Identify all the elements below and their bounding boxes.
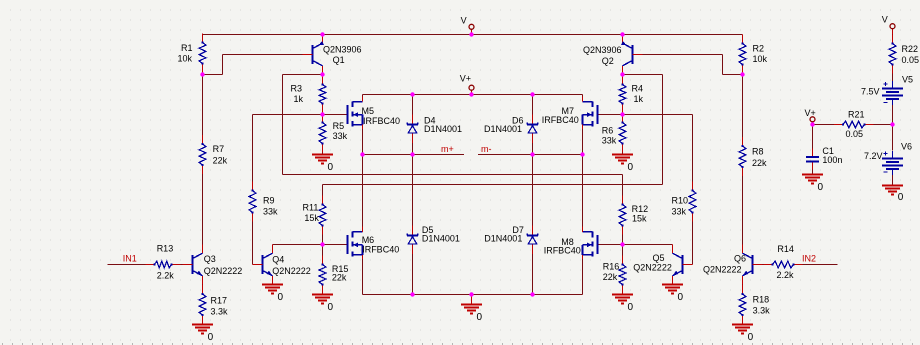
svg-text:100n: 100n: [822, 155, 842, 165]
wire M5 gate row: [253, 114, 347, 116]
svg-text:1k: 1k: [634, 94, 644, 104]
svg-text:33k: 33k: [263, 206, 278, 216]
wire V+ node to C1: [812, 125, 814, 150]
wire M6 gate row: [323, 244, 347, 246]
junction V+ tap / V+ rail: [469, 92, 473, 96]
svg-text:22k: 22k: [213, 155, 228, 165]
ground V6: [882, 185, 903, 187]
wire Q2 collector to cross B: [623, 74, 663, 76]
svg-text:Q4: Q4: [272, 255, 284, 265]
transistor Q1: [312, 45, 314, 64]
junction M8 gate node: [620, 242, 624, 246]
node m- stub: [478, 154, 583, 156]
svg-text:Q2N2222: Q2N2222: [633, 263, 672, 273]
svg-text:IRFBC40: IRFBC40: [542, 115, 579, 125]
wire V tap stub: [471, 29, 473, 34]
junction M5 source / node m+: [360, 152, 364, 156]
svg-text:R13: R13: [157, 244, 174, 254]
wire V+ tap stub: [471, 90, 473, 94]
resistor R2: [742, 35, 744, 44]
wire R21 row: [813, 124, 835, 126]
resistor R11: [322, 196, 324, 205]
wire V+ rail: [363, 94, 583, 96]
power tap V+ mid: [469, 85, 474, 90]
wire R13 to Q3 base: [180, 264, 183, 266]
svg-text:10k: 10k: [178, 54, 193, 64]
capacitor C1: [812, 149, 814, 158]
resistor R7: [202, 135, 204, 144]
svg-text:V+: V+: [460, 74, 471, 84]
power tap V right: [890, 24, 895, 29]
svg-text:IRFBC40: IRFBC40: [544, 245, 581, 255]
wire R10 column: [692, 115, 694, 182]
svg-text:m-: m-: [481, 144, 492, 154]
svg-text:Q2: Q2: [602, 56, 614, 66]
diode D6: [532, 115, 534, 125]
svg-text:33k: 33k: [602, 135, 617, 145]
svg-text:D1N4001: D1N4001: [484, 233, 522, 243]
svg-text:22k: 22k: [332, 273, 347, 283]
wire Q4 emitter: [272, 277, 274, 285]
svg-text:V6: V6: [901, 141, 912, 151]
power tap V top: [469, 24, 474, 29]
junction D5 / ground rail: [410, 292, 414, 296]
transistor Q2: [632, 45, 634, 64]
transistor Q4: [262, 255, 264, 274]
svg-text:22k: 22k: [603, 272, 618, 282]
svg-text:D1N4001: D1N4001: [424, 124, 462, 134]
svg-text:R3: R3: [291, 83, 303, 93]
wire R2 column: [742, 74, 744, 138]
svg-text:R6: R6: [602, 126, 614, 136]
svg-text:R16: R16: [603, 261, 620, 271]
resistor R12: [622, 196, 624, 205]
svg-text:Q3: Q3: [204, 254, 216, 264]
svg-text:33k: 33k: [672, 206, 687, 216]
svg-text:0: 0: [477, 312, 483, 323]
junction Q2 emitter / V rail: [620, 32, 624, 36]
wire Q5 emitter: [672, 277, 674, 285]
svg-text:22k: 22k: [752, 158, 767, 168]
svg-text:D1N4001: D1N4001: [422, 233, 460, 243]
svg-text:R11: R11: [303, 203, 319, 213]
wire cross A: [283, 174, 623, 176]
junction D6 anode / node m-: [530, 152, 534, 156]
svg-text:Q2N2222: Q2N2222: [703, 264, 742, 274]
svg-text:R7: R7: [213, 144, 225, 154]
svg-text:33k: 33k: [333, 131, 348, 141]
resistor R5: [322, 114, 324, 123]
wire R5 to ground: [322, 144, 324, 155]
svg-text:0.05: 0.05: [846, 129, 864, 139]
junction V tap / V rail: [469, 32, 473, 36]
wire V source branch top: [892, 29, 894, 34]
svg-text:R1: R1: [181, 43, 193, 53]
junction D4 / V+ rail: [410, 92, 414, 96]
junction D7 / ground rail: [530, 292, 534, 296]
wire V5 to node: [892, 105, 894, 125]
junction D4 anode / node m+: [410, 152, 414, 156]
junction M5 gate node: [320, 112, 324, 116]
svg-text:M5: M5: [362, 106, 375, 116]
junction R2-R8 node: [740, 72, 744, 76]
wire ground rail: [363, 294, 583, 296]
svg-text:0: 0: [628, 162, 634, 173]
wire Q4 collector: [273, 244, 323, 246]
junction R1-R7 node: [200, 72, 204, 76]
resistor R9: [252, 182, 254, 191]
svg-text:2.2k: 2.2k: [157, 271, 175, 281]
svg-text:R17: R17: [211, 295, 228, 305]
power tap V+ right: [810, 117, 815, 122]
svg-text:R22: R22: [902, 44, 919, 54]
wire Q6 base to R14: [763, 264, 764, 266]
svg-text:IN1: IN1: [123, 253, 137, 263]
svg-text:0: 0: [818, 182, 824, 193]
wire R10 to Q5 base: [692, 222, 694, 265]
junction D6 / V+ rail: [530, 92, 534, 96]
ground R6: [612, 154, 633, 156]
svg-text:0: 0: [328, 162, 334, 173]
svg-text:0: 0: [208, 332, 214, 343]
node m+ stub: [363, 154, 465, 156]
mosfet M5: [347, 105, 349, 124]
battery V6: [882, 158, 903, 160]
svg-text:R10: R10: [672, 195, 689, 205]
svg-text:IN2: IN2: [802, 254, 816, 264]
resistor R8: [742, 137, 744, 146]
junction V5-V6 node: [890, 122, 894, 126]
svg-text:15k: 15k: [632, 214, 647, 224]
transistor Q5: [682, 255, 684, 274]
svg-text:0: 0: [748, 332, 754, 343]
junction center ground / ground rail: [469, 292, 473, 296]
svg-text:R5: R5: [333, 121, 345, 131]
ground R5: [312, 154, 333, 156]
resistor R1: [202, 34, 204, 43]
svg-text:V+: V+: [805, 108, 816, 118]
diode D5: [412, 226, 414, 236]
transistor Q6: [752, 255, 754, 274]
wire Q5 collector: [623, 244, 673, 246]
svg-text:Q2N3906: Q2N3906: [583, 45, 622, 55]
svg-text:m+: m+: [441, 144, 454, 154]
svg-text:R12: R12: [632, 204, 649, 214]
junction Q2 collector node: [620, 72, 624, 76]
ground R17: [192, 324, 213, 326]
svg-text:Q2N2222: Q2N2222: [272, 266, 311, 276]
wire Q1 collector to cross A: [283, 74, 323, 76]
junction Q1 emitter / V rail: [320, 32, 324, 36]
resistor R4: [622, 76, 624, 85]
ground Q4: [262, 284, 283, 286]
svg-text:0: 0: [628, 302, 634, 313]
wire R9 column: [252, 115, 254, 182]
junction M6 gate node: [320, 242, 324, 246]
svg-text:0: 0: [328, 302, 334, 313]
wire M8 gate row: [599, 244, 623, 246]
wire R12 bottom: [622, 234, 624, 245]
wire V top rail: [203, 34, 743, 36]
transistor Q3: [192, 255, 194, 274]
svg-text:7.2V: 7.2V: [864, 151, 883, 161]
resistor R3: [322, 76, 324, 85]
junction V+ node right: [810, 122, 814, 126]
resistor R10: [692, 182, 694, 191]
svg-text:D1N4001: D1N4001: [484, 124, 522, 134]
svg-text:Q2N3906: Q2N3906: [323, 45, 362, 55]
svg-text:R9: R9: [263, 195, 275, 205]
wire right output column: [582, 129, 584, 155]
svg-text:R21: R21: [848, 109, 865, 119]
svg-text:0: 0: [278, 292, 284, 303]
mosfet M7: [597, 105, 599, 124]
wire left output column: [362, 129, 364, 155]
ground R15: [312, 294, 333, 296]
diode D7: [532, 226, 534, 236]
svg-text:0: 0: [898, 192, 904, 203]
svg-text:Q2N2222: Q2N2222: [204, 266, 243, 276]
wire center ground stem: [471, 295, 473, 305]
ground Q5: [662, 284, 683, 286]
wire D4 column: [412, 95, 414, 115]
svg-text:15k: 15k: [304, 213, 319, 223]
svg-text:Q5: Q5: [653, 253, 665, 263]
wire cross B: [323, 184, 663, 186]
wire D5 column: [412, 155, 414, 226]
ground R18: [732, 324, 753, 326]
wire IN1 stub: [108, 264, 146, 266]
svg-text:V: V: [461, 15, 467, 25]
junction M7 gate node: [620, 112, 624, 116]
mosfet M6: [347, 235, 349, 254]
junction Q1 collector node: [320, 72, 324, 76]
resistor R17: [202, 285, 204, 294]
wire R15 column: [322, 245, 324, 257]
svg-text:0: 0: [678, 292, 684, 303]
wire R22 to V5: [892, 74, 894, 82]
svg-text:IRFBC40: IRFBC40: [362, 244, 399, 254]
wire V6 to ground: [892, 175, 894, 186]
ground R16: [612, 294, 633, 296]
svg-text:3.3k: 3.3k: [211, 306, 229, 316]
resistor R16: [622, 256, 624, 265]
svg-text:R8: R8: [752, 146, 764, 156]
wire IN2 stub: [803, 264, 838, 266]
junction M7 source / node m-: [580, 152, 584, 156]
svg-text:R14: R14: [777, 244, 794, 254]
svg-text:3.3k: 3.3k: [753, 305, 771, 315]
resistor R6: [622, 114, 624, 123]
wire D6 column: [532, 95, 534, 115]
svg-text:10k: 10k: [753, 54, 768, 64]
wire D7 column: [532, 155, 534, 226]
svg-text:Q1: Q1: [333, 55, 345, 65]
wire Q2 base: [643, 54, 723, 56]
svg-text:2.2k: 2.2k: [777, 270, 795, 280]
wire V+ right tap stub: [812, 122, 814, 125]
wire Q3 emitter: [202, 284, 204, 288]
wire M7 gate row: [599, 114, 693, 116]
svg-text:7.5V: 7.5V: [861, 87, 880, 97]
svg-text:R2: R2: [753, 44, 765, 54]
ground center: [461, 304, 482, 306]
wire Q1 base: [223, 54, 303, 56]
wire R9 to Q4 base: [252, 222, 254, 265]
svg-text:V: V: [882, 14, 888, 24]
svg-text:IRFBC40: IRFBC40: [363, 116, 400, 126]
wire R6 to ground: [622, 144, 624, 155]
resistor R13: [146, 264, 155, 266]
wire C1 to ground: [812, 170, 814, 175]
wire R7 column: [202, 73, 204, 136]
resistor R15: [322, 256, 324, 265]
svg-text:R4: R4: [632, 83, 644, 93]
wire R11 bottom: [322, 234, 324, 245]
resistor R21: [834, 124, 843, 126]
svg-text:V5: V5: [902, 74, 913, 84]
wire Q6 emitter: [742, 284, 744, 288]
wire R16 column: [622, 245, 624, 257]
resistor R22: [892, 35, 894, 44]
wire node to V6: [892, 125, 894, 151]
battery V5: [882, 88, 903, 90]
diode D4: [412, 115, 414, 125]
resistor R18: [742, 285, 744, 294]
svg-text:R18: R18: [753, 294, 770, 304]
svg-text:1k: 1k: [294, 94, 304, 104]
resistor R14: [764, 264, 773, 266]
svg-text:Q6: Q6: [734, 253, 746, 263]
mosfet M8: [597, 235, 599, 254]
ground C1: [802, 174, 823, 176]
svg-text:0.05: 0.05: [902, 55, 920, 65]
